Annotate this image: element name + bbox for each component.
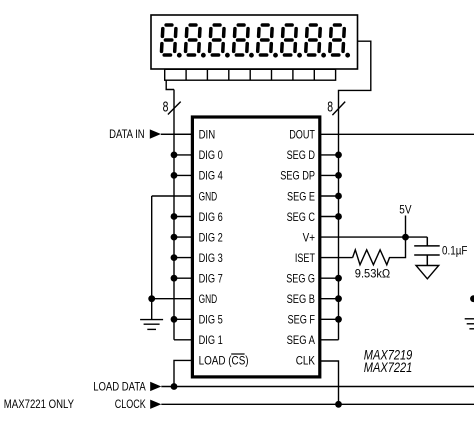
display digit 2 [186, 25, 206, 58]
wire SEGDP stub [320, 174, 339, 176]
svg-text:DIG 3: DIG 3 [199, 251, 223, 265]
svg-text:8: 8 [327, 100, 333, 116]
node DIG6 [171, 213, 178, 220]
wire: display left bus step [166, 80, 174, 89]
wire SEGB stub [320, 298, 339, 300]
svg-text:DATA IN: DATA IN [109, 127, 145, 141]
pin stubs left [152, 134, 193, 386]
wire SEGA stub [320, 339, 339, 341]
display pin boxes [165, 69, 336, 80]
svg-text:SEG F: SEG F [288, 313, 316, 327]
svg-text:SEG C: SEG C [287, 210, 315, 224]
node SEGF [335, 316, 342, 323]
svg-text:MAX7221 ONLY: MAX7221 ONLY [4, 397, 74, 411]
node DIG4 [171, 172, 178, 179]
svg-text:SEG DP: SEG DP [280, 169, 315, 183]
svg-text:5V: 5V [399, 202, 412, 216]
svg-text:DIG 0: DIG 0 [199, 148, 223, 162]
node LOAD/LOADDATA [171, 383, 178, 390]
wire DOUT line [320, 133, 474, 135]
svg-text:DIG 7: DIG 7 [199, 272, 223, 286]
resistor R1 9.53k [353, 237, 406, 265]
svg-text:CLOCK: CLOCK [115, 397, 147, 411]
svg-text:DIG 4: DIG 4 [199, 169, 223, 183]
wire DIG5 stub [174, 318, 192, 320]
junction dots right bus [335, 152, 409, 408]
svg-text:SEG E: SEG E [287, 189, 315, 203]
wire SEGD stub [320, 154, 339, 156]
node right edge dot (clipped) [470, 295, 474, 302]
node SEGB [335, 295, 342, 302]
wire V+ line [320, 236, 428, 238]
display digit 1 [162, 25, 182, 58]
display digit 6 [282, 25, 302, 58]
input arrow LOAD DATA [150, 382, 161, 391]
svg-text:V+: V+ [303, 230, 315, 244]
svg-text:GND: GND [199, 189, 218, 203]
capacitor C1 0.1uF [414, 237, 440, 265]
node SEGD [335, 152, 342, 159]
svg-text:0.1µF: 0.1µF [442, 244, 468, 258]
svg-text:SEG D: SEG D [287, 148, 315, 162]
bus slash right [332, 102, 345, 116]
svg-text:9.53kΩ: 9.53kΩ [355, 266, 390, 280]
ground (earth, clipped) right edge [465, 319, 474, 329]
wire CLK stub [320, 361, 339, 404]
wire CLOCK [161, 403, 474, 405]
svg-text:DIN: DIN [199, 128, 216, 142]
svg-text:CLK: CLK [296, 354, 316, 368]
junction dots left bus [148, 152, 177, 390]
wire GND1 stub [152, 195, 193, 197]
svg-text:DIG 2: DIG 2 [199, 230, 223, 244]
wire DIG7 stub [174, 277, 192, 279]
svg-text:SEG G: SEG G [286, 272, 315, 286]
display digit 8 [330, 25, 350, 58]
svg-text:DIG 1: DIG 1 [199, 333, 223, 347]
svg-text:SEG B: SEG B [287, 292, 315, 306]
svg-text:SEG A: SEG A [287, 333, 316, 347]
svg-text:DOUT: DOUT [289, 128, 315, 142]
wire: left digit bus vertical [173, 90, 175, 340]
ground (triangle) under C1 [416, 266, 439, 279]
node SEGC [335, 213, 342, 220]
wire LOAD DATA [161, 386, 474, 388]
svg-text:LOAD (CS): LOAD (CS) [199, 354, 249, 368]
input arrow CLOCK [150, 400, 161, 409]
node DIG3 [171, 254, 178, 261]
pin stubs right + nets [320, 134, 474, 404]
svg-text:DIG 5: DIG 5 [199, 313, 223, 327]
node GND tee [148, 295, 155, 302]
node DIG5 [171, 316, 178, 323]
wire DIG6 stub [174, 216, 192, 218]
svg-text:DIG 6: DIG 6 [199, 210, 223, 224]
wire SEGC stub [320, 216, 339, 218]
svg-text:MAX7221: MAX7221 [364, 360, 413, 375]
node V+ 5V [402, 234, 409, 241]
wire DIG2 stub [174, 236, 192, 238]
wire LOAD stub [174, 360, 192, 386]
wire DIG4 stub [174, 174, 192, 176]
wire SEGE stub [320, 195, 339, 197]
node SEGG [335, 275, 342, 282]
node DIG2 [171, 234, 178, 241]
wire DIN stub [161, 133, 193, 135]
op-amp U1 MAX7219 IC body [192, 117, 319, 377]
wire DIG1 stub [174, 339, 192, 341]
bus slash left [168, 102, 181, 115]
svg-text:GND: GND [199, 292, 218, 306]
wire: display right connection [339, 41, 371, 340]
display digit 5 [258, 25, 278, 58]
svg-text:ISET: ISET [295, 251, 315, 265]
wire GND2 stub [152, 298, 193, 300]
wire DATA IN [161, 133, 193, 135]
node SEGDP [335, 172, 342, 179]
display digit 4 [234, 25, 254, 58]
node CLK/CLOCK [335, 401, 342, 408]
display DS1 8-digit 7-segment module [151, 15, 358, 69]
wire 5V lead [405, 216, 407, 238]
wire SEGG stub [320, 277, 339, 279]
svg-text:LOAD DATA: LOAD DATA [93, 379, 146, 393]
wire SEGF stub [320, 318, 339, 320]
node DIG7 [171, 275, 178, 282]
node SEGE [335, 193, 342, 200]
display digit 3 [210, 25, 230, 58]
wire DIG3 stub [174, 257, 192, 259]
ground (earth) left GND net [140, 196, 163, 329]
svg-text:8: 8 [163, 100, 169, 116]
display digit 7 [306, 25, 326, 58]
overline CS [231, 353, 244, 355]
wire DIG0 stub [174, 154, 192, 156]
wire ISET stub [320, 257, 353, 259]
input arrow DATA IN [150, 129, 161, 138]
node DIG0 [171, 152, 178, 159]
